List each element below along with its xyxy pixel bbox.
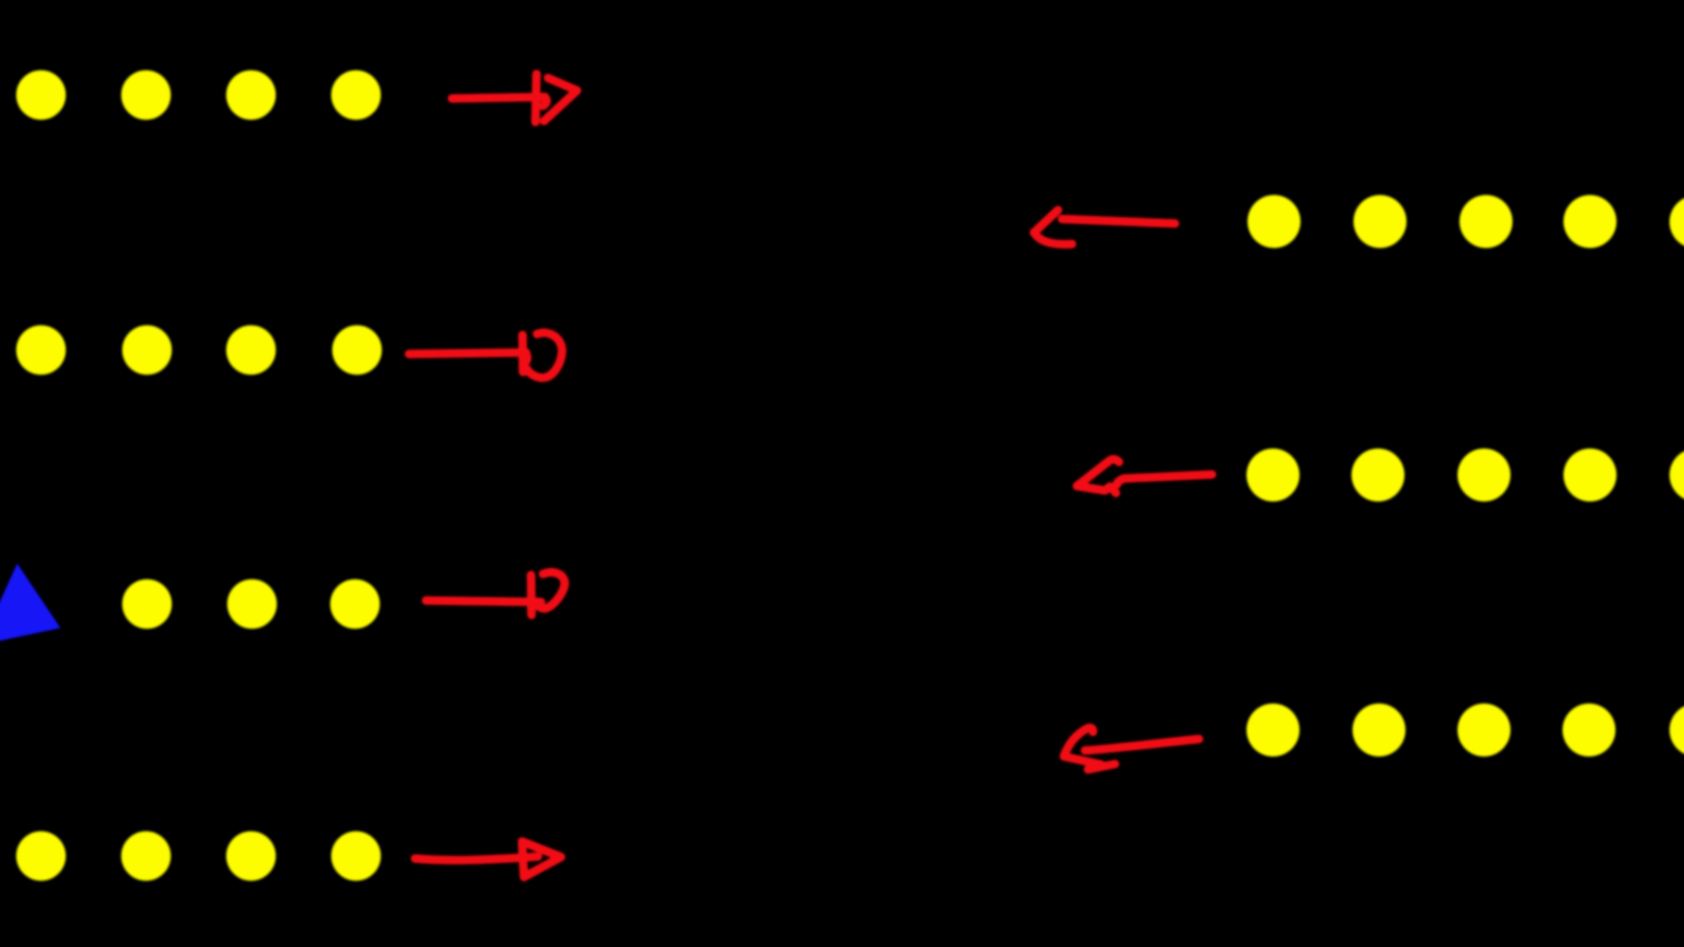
left dot row 1	[16, 70, 381, 120]
left dot row 4	[16, 831, 381, 881]
arrow E left-pointing, right row 1	[1034, 210, 1175, 244]
arrow B right-pointing, row 2	[409, 333, 562, 378]
arrow C right-pointing, row 3	[426, 572, 565, 615]
right dot row 1	[1248, 195, 1684, 249]
arrow D right-pointing, row 4	[415, 842, 561, 878]
arrow A right-pointing, row 1	[452, 74, 577, 122]
left dot row 3	[122, 579, 380, 629]
right dot row 2	[1247, 449, 1684, 502]
blue triangle	[0, 564, 61, 646]
arrow G left-pointing, right row 3	[1064, 728, 1199, 770]
left dot row 2	[16, 325, 382, 375]
arrow F left-pointing, right row 2	[1077, 459, 1212, 493]
right dot row 3	[1247, 704, 1684, 757]
